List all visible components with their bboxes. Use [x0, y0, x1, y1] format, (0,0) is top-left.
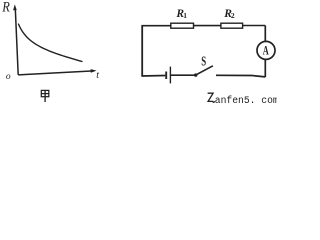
wire top right segment	[243, 25, 266, 27]
resistor R2	[221, 23, 243, 28]
caption jia (甲)	[41, 90, 49, 102]
x-axis arrowhead	[91, 69, 97, 73]
y-axis arrowhead	[13, 4, 17, 10]
svg-text:anfen5. com: anfen5. com	[215, 95, 277, 105]
caption yi (乙)	[208, 93, 215, 102]
switch S	[194, 66, 213, 77]
battery cell	[166, 67, 170, 84]
svg-text:A: A	[263, 43, 269, 57]
svg-text:t: t	[96, 70, 99, 81]
x-axis	[18, 71, 93, 75]
svg-text:S: S	[201, 53, 206, 68]
wire between R1 and R2	[194, 25, 221, 27]
wire right vertical lower	[264, 60, 266, 78]
wire bottom left segment	[141, 75, 165, 78]
ammeter A	[257, 41, 275, 59]
wire battery to switch	[171, 74, 195, 76]
svg-text:1: 1	[183, 11, 187, 20]
svg-text:o: o	[6, 72, 11, 82]
svg-text:R: R	[1, 0, 9, 16]
y-axis	[15, 9, 18, 75]
wire right vertical upper	[264, 26, 266, 42]
wire left vertical	[141, 26, 143, 76]
svg-text:2: 2	[231, 11, 235, 20]
wire top left segment	[141, 25, 170, 27]
wire bottom right segment	[216, 75, 265, 77]
resistor R1	[171, 23, 194, 28]
R-t decay curve	[19, 24, 83, 61]
